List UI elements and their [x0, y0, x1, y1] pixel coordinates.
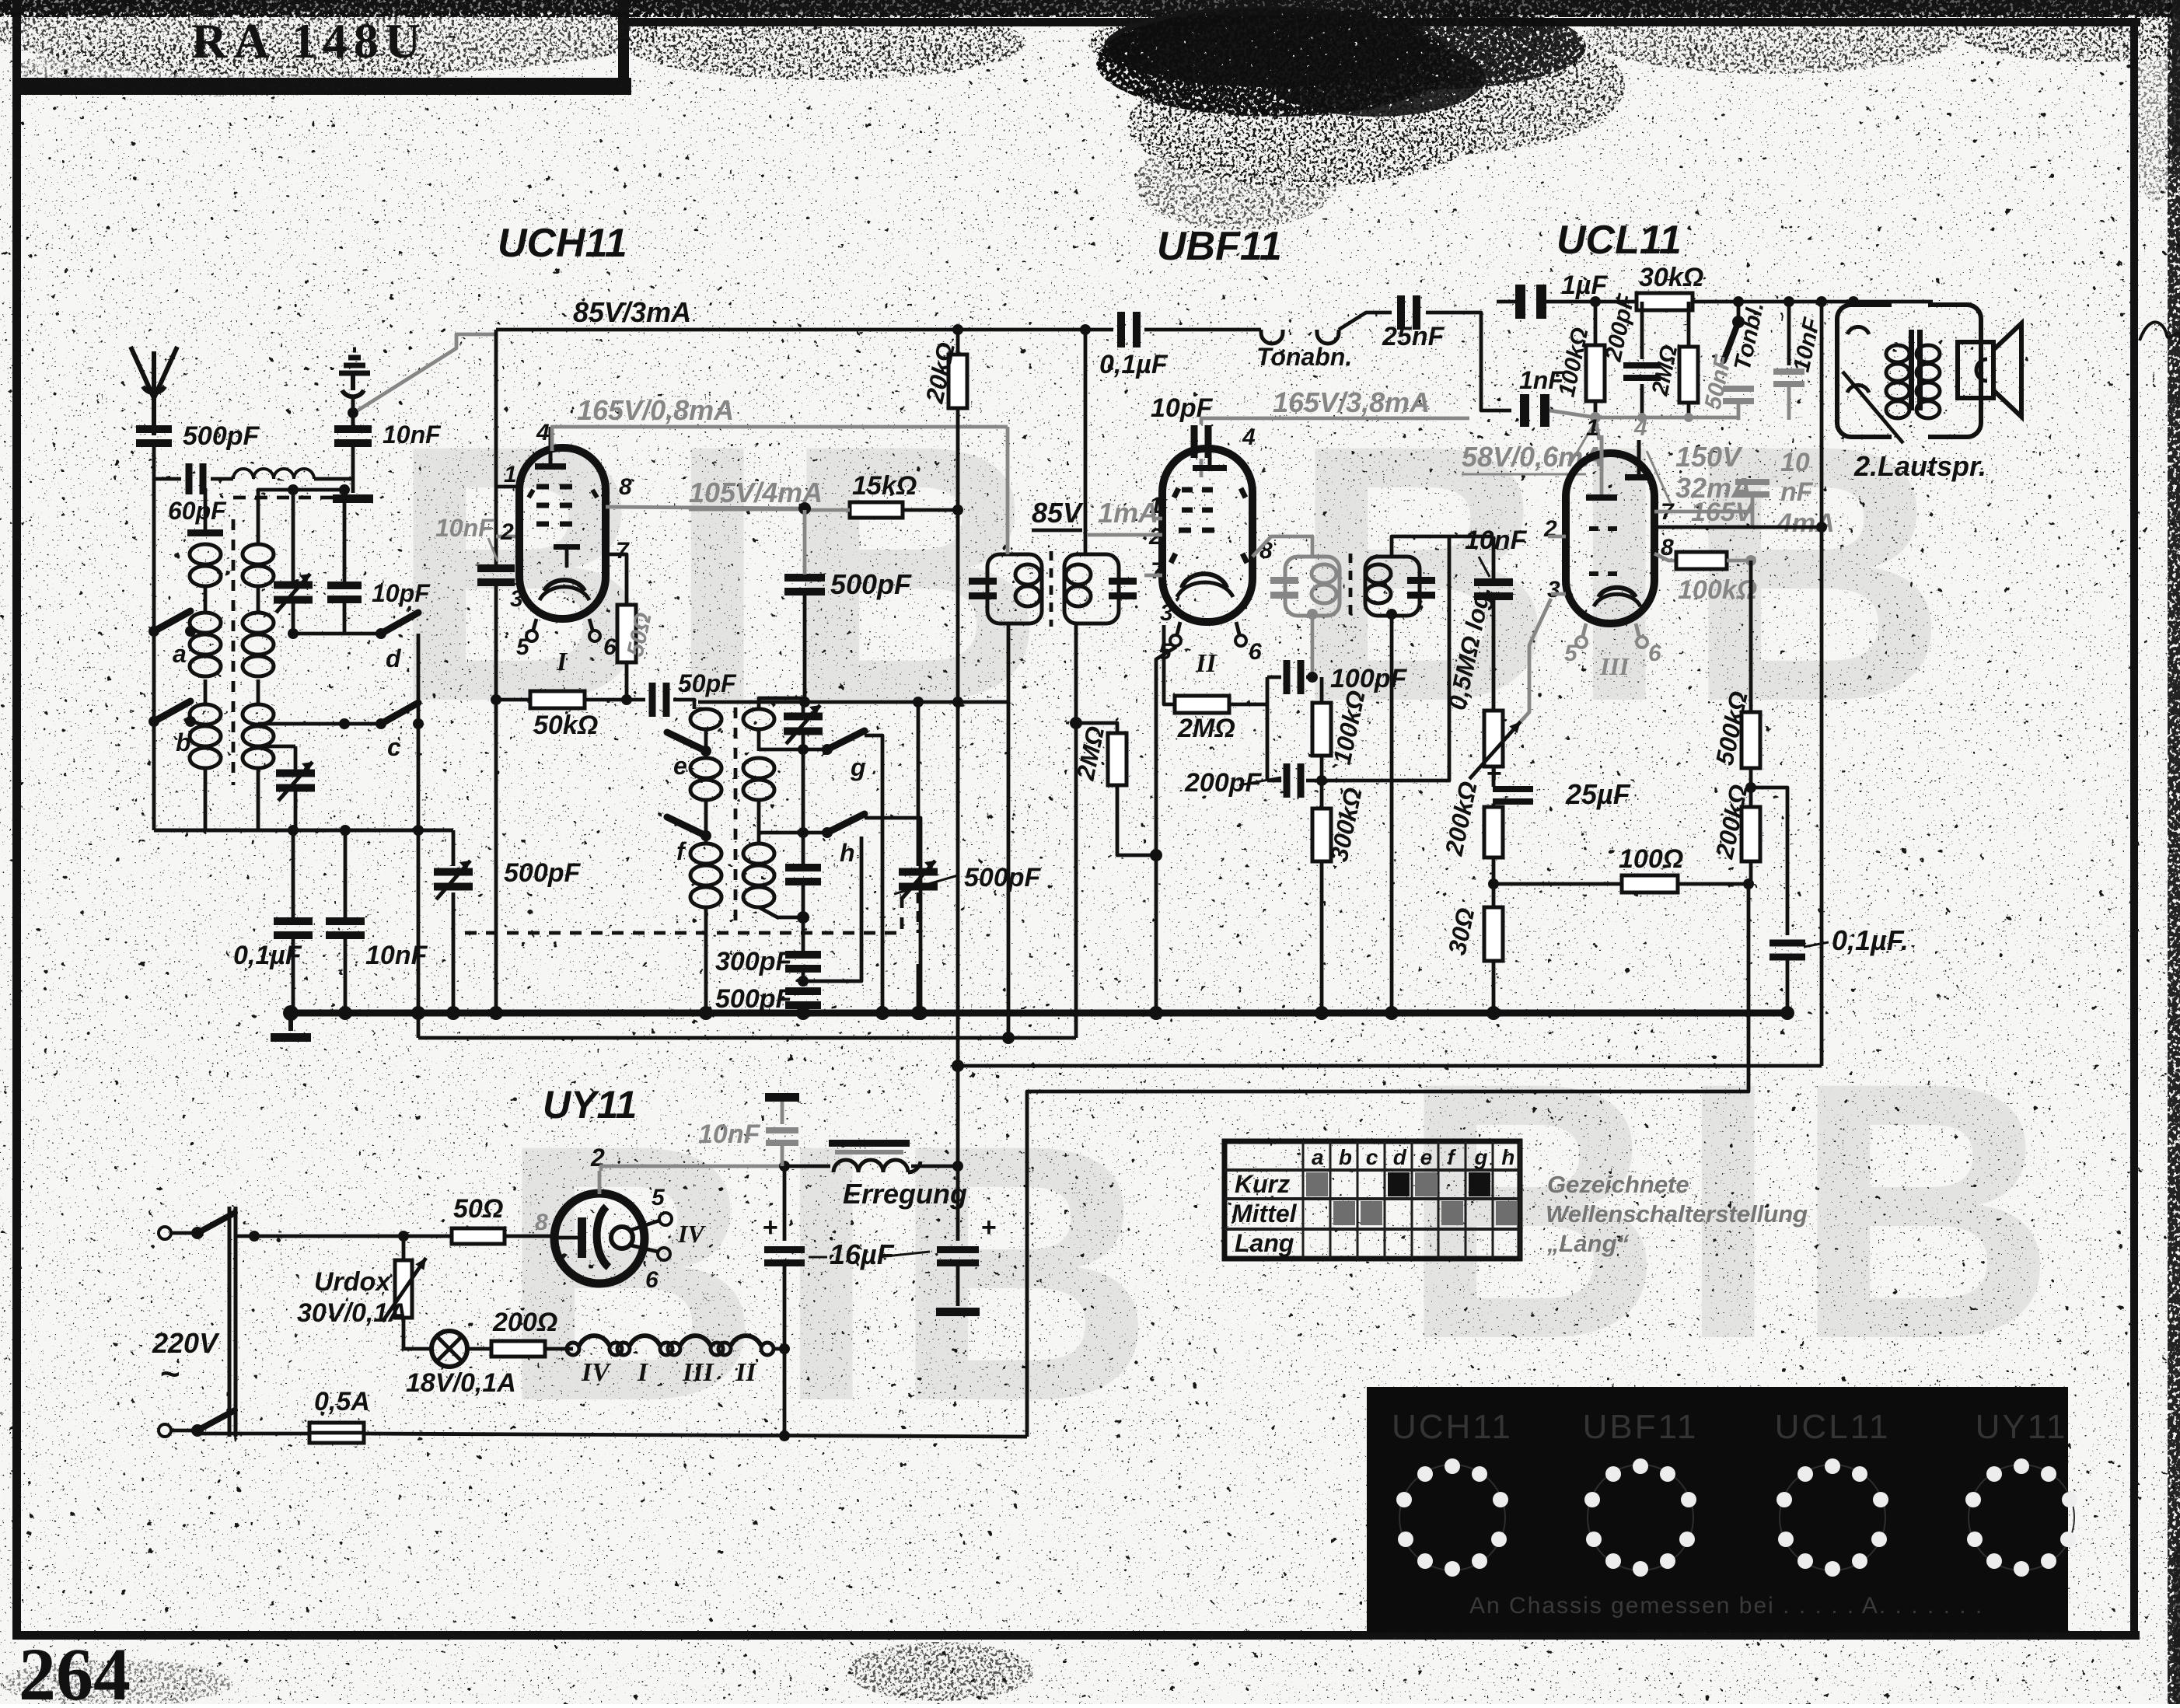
resistor 500k	[1742, 712, 1760, 768]
capacitor 25uF electrolytic	[1492, 767, 1496, 787]
capacitor 50pF series	[627, 698, 645, 702]
heater-cathode rail	[1494, 882, 1749, 886]
title box RA 148U	[618, 0, 629, 95]
wire UBF cathode to ground	[1156, 647, 1176, 1013]
svg-text:10pF: 10pF	[372, 579, 431, 607]
IF I dashed line	[1050, 551, 1053, 627]
svg-text:6: 6	[603, 634, 617, 660]
capacitor 500pF antenna series	[136, 425, 172, 433]
wire 1uF to 30k	[1546, 300, 1637, 304]
svg-text:165V/3,8mA: 165V/3,8mA	[1273, 386, 1430, 418]
dashed core line	[233, 496, 365, 500]
ground bus main	[291, 1010, 1788, 1017]
svg-text:165V/0,8mA: 165V/0,8mA	[577, 394, 734, 426]
svg-text:„Lang“: „Lang“	[1546, 1230, 1630, 1257]
svg-text:Tonabn.: Tonabn.	[1256, 343, 1352, 371]
svg-text:85V/3mA: 85V/3mA	[573, 296, 691, 328]
capacitor 10nF	[326, 917, 365, 925]
wire left column	[152, 479, 156, 830]
svg-text:2MΩ: 2MΩ	[1177, 714, 1235, 743]
svg-text:+: +	[763, 1213, 778, 1242]
capacitor 10nF det	[1449, 535, 1494, 539]
switch d	[344, 632, 381, 636]
svg-text:UY11: UY11	[1976, 1408, 2068, 1446]
wire pin1 stub	[496, 485, 519, 489]
wire cathode UY11 (gray)	[601, 1166, 784, 1171]
wire 105V junction	[798, 502, 811, 515]
svg-text:15kΩ: 15kΩ	[852, 471, 917, 501]
switch c	[344, 722, 381, 726]
variable padder 500pF antenna	[452, 830, 456, 866]
svg-text:+: +	[981, 1213, 997, 1242]
svg-text:III: III	[682, 1358, 714, 1387]
wire pin8 to IF II (gray)	[1252, 536, 1312, 557]
svg-text:50kΩ: 50kΩ	[533, 711, 598, 740]
svg-text:300pF: 300pF	[715, 947, 792, 976]
resistor 200k right	[1749, 768, 1753, 807]
wire IF I right top	[1084, 330, 1088, 554]
oscillator coil left column	[690, 709, 721, 729]
wire to 25nF	[1339, 313, 1392, 330]
switch f	[700, 830, 711, 841]
svg-text:1mA: 1mA	[1098, 497, 1158, 529]
capacitor 0,1uF	[274, 917, 313, 925]
svg-text:III: III	[1599, 652, 1630, 680]
band filter right coil column	[257, 504, 260, 544]
svg-text:+: +	[1487, 759, 1502, 788]
coil antenna input	[233, 469, 314, 479]
page border frame	[12, 0, 21, 1640]
variable trimmer capacitor 2	[276, 770, 315, 777]
node antenna-2	[348, 407, 358, 418]
svg-text:g: g	[850, 753, 866, 781]
resistor 100k AVC	[1312, 703, 1331, 756]
svg-text:Erregung: Erregung	[843, 1178, 967, 1210]
earth aerial symbol	[339, 350, 370, 373]
output transformer primary	[1886, 345, 1909, 362]
page tear mark right edge (decorative)	[2140, 322, 2180, 344]
svg-text:500pF: 500pF	[504, 858, 581, 888]
wire IF II right top	[1392, 536, 1449, 557]
svg-text:Gezeichnete: Gezeichnete	[1547, 1171, 1689, 1198]
tube UBF11 internals	[1208, 427, 1212, 466]
svg-text:IV: IV	[677, 1220, 706, 1248]
wires output top/bottom	[1852, 302, 1856, 305]
svg-text:500pF: 500pF	[183, 421, 260, 451]
svg-text:c: c	[387, 733, 401, 761]
wire to 85V rail (gray)	[358, 334, 498, 410]
wire 200k top	[1493, 804, 1494, 807]
IF transformer I right tank	[1064, 554, 1119, 623]
capacitor 500pF IF	[784, 574, 825, 582]
capacitor 10nF ripple	[765, 1093, 799, 1102]
svg-text:nF: nF	[1780, 477, 1814, 507]
variable trimmer capacitor	[274, 582, 313, 589]
speaker	[1958, 342, 1993, 398]
line x1232 down	[956, 510, 960, 1066]
svg-text:II: II	[1195, 649, 1218, 678]
svg-text:0,5A: 0,5A	[314, 1387, 370, 1416]
tube UBF11 pin stubs	[1177, 622, 1180, 634]
wire 25nF to UCL grid cap	[1426, 313, 1511, 410]
svg-text:e: e	[673, 752, 687, 780]
capacitor 10nF grid UCH11	[477, 564, 515, 572]
IF transformer I left tank	[987, 554, 1042, 623]
svg-text:h: h	[840, 839, 855, 867]
svg-text:c: c	[1366, 1145, 1378, 1169]
svg-text:10nF: 10nF	[698, 1119, 761, 1149]
capacitor 200pF	[1284, 763, 1291, 798]
wire grid to pin	[1595, 417, 1599, 440]
svg-text:I: I	[556, 648, 568, 676]
wire AVC bus	[418, 1036, 1076, 1040]
capacitor 16uF no1	[783, 1166, 787, 1241]
wire 100pF left leg	[1266, 677, 1270, 781]
oscillator dashed line	[734, 707, 738, 925]
resistor 30k	[1637, 293, 1693, 310]
svg-text:5: 5	[516, 634, 530, 660]
svg-text:10nF: 10nF	[1465, 526, 1528, 555]
svg-text:UCL11: UCL11	[1775, 1408, 1891, 1446]
svg-text:500pF: 500pF	[715, 984, 792, 1014]
svg-text:50pF: 50pF	[678, 669, 737, 697]
svg-text:0,1µF.: 0,1µF.	[1832, 924, 1909, 956]
fuse 0,5A	[197, 1432, 309, 1436]
svg-text:220V: 220V	[152, 1327, 220, 1359]
cathode wire pin7	[1654, 510, 1752, 514]
IF II right bottom to bus	[1386, 609, 1397, 620]
bottom bus of band filter	[154, 829, 453, 833]
wire 2M to 200pF node	[1266, 704, 1268, 774]
capacitor 10pF	[327, 582, 362, 589]
wire antenna to 60pF	[152, 447, 156, 479]
output transformer core	[1909, 330, 1914, 410]
capacitor 0,1uF coupling	[1117, 312, 1125, 348]
speaker plug diagonal	[1843, 372, 1903, 443]
svg-text:1nF: 1nF	[1519, 366, 1564, 394]
potentiometer 0,5M log	[1484, 711, 1503, 767]
resistor 30 ohm	[1484, 907, 1503, 961]
wire top of right column	[258, 490, 293, 504]
capacitor 100pF	[1267, 676, 1281, 679]
IF transformer II left tank (gray)	[1285, 557, 1340, 616]
capacitor 10nF antenna-2	[334, 425, 372, 433]
tube UCH11 pin stubs	[533, 619, 536, 630]
resistor 20k	[956, 330, 960, 355]
svg-text:3: 3	[1160, 600, 1173, 626]
svg-text:0,1µF: 0,1µF	[1099, 350, 1169, 379]
tube UCH11 internals	[549, 427, 553, 466]
svg-text:30V/0,1A: 30V/0,1A	[297, 1298, 407, 1328]
svg-text:4: 4	[1242, 424, 1256, 450]
tube socket footer panel	[1367, 1387, 2068, 1633]
capacitor 16uF no2	[956, 1066, 960, 1166]
capacitor 10pF	[1191, 425, 1198, 458]
resistor 2M horizontal	[1175, 696, 1229, 713]
svg-text:6: 6	[1648, 641, 1661, 666]
output transformer bracket left	[1837, 305, 1892, 437]
svg-text:4: 4	[1633, 415, 1647, 441]
svg-text:4mA: 4mA	[1776, 508, 1835, 538]
capacitor 60pF	[186, 463, 193, 494]
svg-text:II: II	[735, 1358, 757, 1387]
mains terminals	[159, 1227, 171, 1239]
wire IF II left bottom (gray)	[1307, 609, 1318, 620]
svg-text:10nF: 10nF	[365, 941, 428, 970]
oscillator coil right column	[759, 698, 803, 709]
wire top mains	[235, 1235, 404, 1238]
svg-text:1: 1	[1586, 415, 1599, 441]
svg-text:5: 5	[652, 1185, 666, 1210]
capacitor 500pF fixed	[785, 987, 821, 995]
svg-text:16µF: 16µF	[830, 1238, 895, 1270]
svg-text:Kurz: Kurz	[1235, 1170, 1290, 1198]
wire down to 500k	[1749, 561, 1753, 712]
svg-text:g: g	[1473, 1145, 1487, 1169]
svg-text:10: 10	[1780, 448, 1810, 477]
wire B+ rail	[958, 1064, 1822, 1068]
capacitor 10nF tone	[1787, 302, 1791, 365]
svg-text:3: 3	[1547, 577, 1560, 603]
capacitor 0,1uF output	[1751, 788, 1787, 935]
mains switch	[191, 1227, 204, 1239]
dashed padder line	[465, 892, 902, 933]
svg-text:UCH11: UCH11	[1392, 1408, 1513, 1446]
oscillator padder 500pF variable	[917, 702, 921, 866]
svg-text:d: d	[1393, 1145, 1407, 1169]
switch a	[148, 626, 159, 637]
svg-text:100kΩ: 100kΩ	[1678, 575, 1757, 605]
svg-text:UCH11: UCH11	[498, 221, 627, 266]
switch h	[822, 827, 833, 838]
wire h down	[865, 818, 921, 1013]
svg-text:I: I	[637, 1358, 649, 1387]
switch e	[700, 746, 711, 756]
resistor 100k screen	[1654, 547, 1676, 561]
svg-text:e: e	[1420, 1145, 1433, 1169]
capacitor 1uF coupling	[1515, 285, 1525, 319]
wire pin3 gray	[1551, 592, 1566, 596]
svg-text:UY11: UY11	[543, 1083, 637, 1126]
svg-text:h: h	[1501, 1145, 1514, 1169]
svg-text:IV: IV	[581, 1358, 611, 1387]
svg-text:30kΩ: 30kΩ	[1639, 263, 1703, 292]
tap wires g h	[759, 748, 827, 752]
capacitor 25nF	[1397, 295, 1405, 330]
tube UCL11 pin stubs	[1583, 623, 1586, 636]
ground chassis below 10nF	[351, 447, 355, 493]
connector hook Tonabn right	[1317, 330, 1339, 344]
capacitor 200pF feedback	[1640, 302, 1644, 359]
wire pot top to UCL grid (gray)	[1521, 599, 1551, 721]
svg-text:An Chassis gemessen bei . . .: An Chassis gemessen bei . . . . . A. . .…	[1469, 1593, 1983, 1619]
svg-text:10nF: 10nF	[383, 421, 442, 449]
wire IF I left bottom	[1007, 623, 1011, 1038]
wire 200pF to 10nF leg	[1322, 536, 1449, 781]
svg-text:2: 2	[500, 519, 514, 545]
svg-text:Mittel: Mittel	[1231, 1200, 1298, 1228]
capacitor 50nF tone	[1723, 386, 1754, 392]
wire IF I right bottom	[1074, 623, 1078, 1038]
svg-text:7: 7	[1151, 558, 1165, 584]
svg-text:8: 8	[619, 474, 632, 500]
Urdox resistor	[398, 1231, 409, 1242]
ground symbol	[288, 1013, 293, 1031]
plate wire	[1654, 526, 1822, 529]
resistor 50 ohm heater	[452, 1228, 505, 1244]
tube UCL11 internals	[1600, 435, 1604, 471]
svg-text:a: a	[1312, 1145, 1324, 1169]
capacitor 10nF cathode	[1735, 479, 1770, 485]
svg-text:25nF: 25nF	[1382, 322, 1445, 351]
oscillator trimmer cap	[784, 713, 823, 721]
svg-text:Urdox: Urdox	[314, 1267, 392, 1297]
capacitor 300pF	[785, 951, 821, 959]
svg-text:6: 6	[645, 1267, 659, 1293]
svg-text:4: 4	[536, 420, 550, 445]
resistor 2M grid leak	[1687, 302, 1691, 347]
wave switch table	[1225, 1141, 1520, 1259]
wire g to bus	[865, 735, 882, 1013]
svg-text:1: 1	[504, 462, 517, 487]
heater chain	[567, 1343, 579, 1355]
svg-text:100Ω: 100Ω	[1619, 844, 1683, 874]
IF transformer II right tank	[1365, 557, 1420, 616]
svg-text:165V: 165V	[1691, 498, 1756, 527]
svg-text:d: d	[386, 644, 402, 672]
svg-text:5: 5	[1564, 641, 1578, 666]
resistor 200k left	[1484, 807, 1503, 857]
svg-text:18V/0,1A: 18V/0,1A	[406, 1368, 516, 1398]
wire 50pF to oscillator coil	[673, 700, 694, 709]
svg-text:UBF11: UBF11	[1583, 1408, 1699, 1446]
svg-text:b: b	[1339, 1145, 1352, 1169]
wire IF I left top	[1006, 427, 1010, 554]
svg-text:2.Lautspr.: 2.Lautspr.	[1853, 450, 1986, 482]
resistor 100 ohm	[1622, 875, 1678, 892]
capacitor 1nF	[1520, 394, 1529, 427]
wire 300pF tap	[803, 837, 861, 981]
svg-text:UCL11: UCL11	[1556, 218, 1682, 263]
resistor 50 ohm cathode	[606, 554, 627, 605]
tube UCL11	[1566, 453, 1654, 623]
svg-text:Lang: Lang	[1235, 1229, 1294, 1257]
output transformer secondary	[1916, 345, 1940, 362]
wire pin7 stub	[1144, 574, 1162, 578]
svg-text:25µF: 25µF	[1565, 778, 1631, 810]
svg-text:150V: 150V	[1675, 441, 1743, 473]
switch g	[822, 744, 833, 755]
field coil Erregung	[784, 1165, 830, 1168]
svg-text:85V: 85V	[1032, 497, 1084, 529]
svg-text:6: 6	[1249, 639, 1262, 665]
wire grid stub	[496, 535, 521, 539]
svg-text:500pF: 500pF	[830, 568, 912, 600]
svg-text:3: 3	[510, 586, 523, 612]
grid line UCL11	[1481, 410, 1511, 411]
svg-text:500pF: 500pF	[964, 863, 1041, 892]
heater loop wire	[1027, 884, 1749, 1437]
capacitor unlabelled oscillator	[785, 864, 821, 871]
dial lamp	[404, 1347, 432, 1351]
tube UCH11	[519, 448, 606, 619]
wire right side of band filter	[417, 634, 421, 1038]
output transformer bracket right	[1928, 305, 1981, 437]
svg-text:0,1µF: 0,1µF	[233, 941, 302, 970]
band filter left coil column	[204, 488, 208, 535]
IF II dashed line	[1349, 554, 1353, 619]
resistor 200 ohm	[467, 1347, 491, 1351]
svg-text:8: 8	[535, 1210, 548, 1235]
connector hook Tonabn left	[1261, 330, 1283, 344]
svg-text:a: a	[173, 640, 187, 668]
switch b	[148, 716, 159, 727]
B+ vertical right	[1820, 302, 1824, 527]
svg-text:264: 264	[19, 1633, 131, 1704]
svg-text:1µF: 1µF	[1561, 271, 1608, 300]
resistor 300k	[1312, 809, 1331, 861]
svg-text:100pF: 100pF	[1330, 664, 1407, 693]
resistor 100k grid	[1594, 302, 1598, 345]
svg-text:b: b	[176, 728, 191, 756]
svg-text:60pF: 60pF	[168, 497, 227, 525]
antenna symbol	[131, 347, 154, 435]
svg-text:200Ω: 200Ω	[492, 1308, 557, 1337]
tube UY11 pins	[598, 1171, 602, 1194]
wave switch table fills	[1306, 1172, 1328, 1196]
svg-text:50Ω: 50Ω	[453, 1194, 503, 1224]
svg-text:~: ~	[160, 1355, 180, 1393]
svg-text:UBF11: UBF11	[1157, 224, 1282, 269]
svg-text:10nF: 10nF	[435, 514, 494, 542]
wire pin2 stub	[1548, 535, 1566, 539]
tube UY11	[554, 1193, 645, 1284]
bottom wire	[364, 1434, 1027, 1437]
dashed coupling line	[232, 519, 236, 785]
wire left drop UCH11	[494, 330, 498, 564]
switch Tonblende	[1737, 302, 1741, 322]
tube UBF11	[1162, 449, 1252, 622]
resistor 50k	[496, 698, 530, 702]
svg-text:Wellenschalterstellung: Wellenschalterstellung	[1546, 1200, 1808, 1228]
resistor 2M vertical	[1076, 723, 1117, 733]
